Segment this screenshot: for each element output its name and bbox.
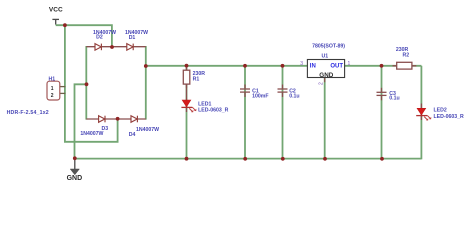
connector H1 pin 2 stub — [60, 92, 66, 94]
svg-text:D2: D2 — [96, 35, 103, 41]
node gnd rail LED1 — [185, 157, 189, 161]
svg-text:D4: D4 — [129, 132, 136, 138]
wire LED2 branch down right edge — [420, 66, 422, 160]
wire C1 chain — [244, 66, 246, 159]
svg-text:R2: R2 — [403, 53, 410, 59]
wire top rail left section — [146, 65, 308, 67]
svg-text:R1: R1 — [193, 76, 200, 82]
wire R1 LED1 chain — [186, 65, 188, 158]
wire C2 chain — [282, 66, 284, 159]
svg-text:0.1u: 0.1u — [389, 96, 399, 102]
node rail C3 — [380, 64, 384, 68]
svg-text:GND: GND — [67, 175, 83, 182]
svg-text:7805(SOT-89): 7805(SOT-89) — [312, 43, 345, 49]
svg-text:100mF: 100mF — [252, 94, 268, 100]
node gnd rail C1 — [243, 157, 247, 161]
LED LED2 — [416, 104, 431, 121]
diode D4 — [131, 116, 137, 123]
voltage regulator U1 — [307, 60, 344, 78]
svg-text:1N4007W: 1N4007W — [80, 131, 103, 137]
svg-text:HDR-F-2.54_1x2: HDR-F-2.54_1x2 — [7, 110, 49, 116]
node gnd rail U1 — [323, 157, 327, 161]
node bridge top junction — [110, 45, 114, 49]
svg-text:0.1u: 0.1u — [289, 94, 299, 100]
node VCC-H1 branch — [63, 23, 67, 27]
svg-text:GND: GND — [319, 72, 333, 79]
bridge bottom row red lead — [86, 118, 146, 120]
wire bottom ground rail — [75, 158, 422, 160]
svg-text:IN: IN — [310, 63, 316, 69]
svg-text:U1: U1 — [322, 53, 329, 59]
svg-text:3: 3 — [300, 61, 303, 67]
wire bridge left vertical — [85, 46, 87, 120]
wire VCC vertical down, to bridge bottom junction — [65, 25, 118, 142]
svg-text:1N4007W: 1N4007W — [136, 127, 159, 133]
node gnd rail C3 — [380, 157, 384, 161]
capacitor C2 — [278, 85, 288, 98]
wire bridge right vertical — [145, 46, 147, 120]
resistor R1 — [186, 65, 188, 88]
wire VCC horizontal to bridge top junction — [56, 25, 112, 47]
node bridge bottom junction — [116, 117, 120, 121]
svg-text:LED2: LED2 — [434, 108, 447, 114]
svg-text:OUT: OUT — [330, 63, 343, 69]
connector H1 pin 1 stub — [60, 86, 66, 88]
resistor R2 — [393, 65, 417, 67]
connector H1 — [47, 81, 60, 100]
svg-text:LED-0603_R: LED-0603_R — [434, 114, 465, 120]
node bridge right to rail — [144, 64, 148, 68]
svg-text:LED-0603_R: LED-0603_R — [198, 107, 229, 113]
wire top rail right section — [345, 65, 422, 67]
node gnd rail left — [73, 156, 77, 160]
ground symbol — [70, 158, 79, 175]
wire U1 pin2 to ground rail — [324, 78, 326, 159]
diode D1 — [127, 44, 133, 51]
svg-text:2: 2 — [51, 93, 54, 99]
svg-text:D1: D1 — [129, 35, 136, 41]
capacitor C1 — [240, 85, 250, 98]
node bridge left junction — [85, 82, 89, 86]
node rail R1 — [185, 64, 189, 68]
diode D3 — [99, 116, 105, 123]
wire C3 chain — [381, 66, 383, 159]
wire GND branch from bridge left to ground rail — [75, 84, 88, 158]
svg-text:2: 2 — [319, 82, 325, 85]
svg-text:1: 1 — [348, 61, 351, 67]
svg-text:VCC: VCC — [49, 7, 63, 14]
capacitor C3 — [377, 88, 387, 101]
svg-text:1: 1 — [51, 86, 54, 92]
LED LED1 — [181, 84, 196, 112]
diode D2 — [95, 44, 101, 51]
bridge top row red lead — [86, 46, 146, 48]
VCC power symbol — [52, 19, 59, 24]
node rail C2 — [281, 64, 285, 68]
U1 pin 2 stub — [324, 78, 326, 83]
node rail C1 — [243, 64, 247, 68]
svg-text:H1: H1 — [49, 77, 56, 83]
node gnd rail C2 — [281, 157, 285, 161]
